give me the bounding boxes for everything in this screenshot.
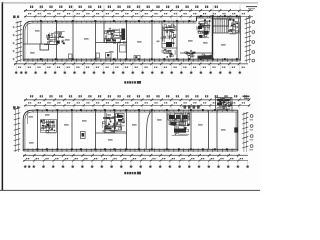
plan1 right grid bubbles [252, 21, 255, 62]
plan2 office furniture cluster left (x40-57) [40, 119, 56, 133]
plan1 dark mass at bottom wall right [198, 56, 213, 59]
plan1 columns on bottom wall [40, 58, 238, 60]
plan2 small dark figure in room x80 [81, 132, 86, 139]
plan1 bottom exterior wall with window mullions [23, 58, 240, 61]
plan1 washroom lower shelf line [44, 41, 60, 45]
plan1 top exterior wall left section [33, 21, 197, 23]
plan1 top wall window mullion ticks [28, 16, 237, 23]
plan2 corridor line mid [96, 132, 127, 134]
plan1 right upper cluster (x228-239) [229, 18, 240, 34]
plan1 interior partitions partial [41, 17, 213, 60]
plan2 marks above top wall x183-199 [182, 105, 200, 108]
plan1 right exterior wall [239, 16, 241, 61]
plan1 staircase treads right section [213, 19, 228, 33]
plan2 right-mid cluster anchor rows [168, 114, 189, 133]
plan2 top dimension line 2 [24, 104, 250, 106]
plan1 right cluster anchor boxes [198, 26, 209, 38]
plan1 inner wall line left [27, 23, 29, 44]
plan2 partition partial x114 [115, 111, 218, 150]
plan1 toilet lower part to bottom wall (x160-176) [162, 49, 175, 58]
plan2 top dimension figures row 1 [30, 95, 247, 97]
plan1 bottom dimension figures [18, 67, 245, 68]
plan1 left chain top text marks [13, 16, 19, 19]
plan1 mid cluster anchor features [105, 29, 126, 43]
plan1 small marks near bottom wall x134 [134, 56, 140, 59]
plan2 left dimension chain [14, 107, 20, 152]
plan2 bottom exterior wall with window mullions [23, 149, 238, 152]
plan2 left exterior wall [23, 120, 25, 151]
plan2 top exterior wall [33, 110, 238, 112]
plan2 columns on bottom wall [36, 148, 227, 150]
plan2 office cluster outline [41, 120, 57, 133]
plan2 interior partitions full height [38, 111, 209, 150]
plan1 top dimension line 1 [24, 9, 253, 12]
plan2 bottom dimension line 1 [23, 154, 248, 157]
plan2 rounded top-left corner [23, 110, 32, 120]
plan1 room name labels [30, 30, 226, 54]
plan1 washroom cluster left (x46-65) [46, 32, 65, 45]
plan1 top dimension line 2 [24, 15, 253, 17]
sheet top border line [2, 2, 258, 4]
plan1 bottom dimension line [14, 63, 248, 66]
plan2 top dimension figures row 2 [28, 102, 245, 103]
plan1 top dimension figures row 1 [30, 6, 218, 8]
plan1 cluster near bottom wall right2 (x197-213) [198, 54, 213, 59]
plan1 toilet cluster mid-left (x104-126) [105, 28, 126, 44]
plan1 cluster near bottom wall right (x183-196) [185, 50, 196, 58]
plan2 protrusion outline box [216, 98, 233, 111]
plan1 small room box left [40, 44, 49, 50]
plan1 corridor wall lines [23, 30, 212, 53]
plan2 staircase treads in cluster [181, 113, 190, 127]
plan2 columns on top wall [36, 109, 227, 111]
plan2 curved corridor wall [146, 111, 152, 150]
plan2 protruding cluster top right (x215-232) [216, 98, 232, 110]
plan2 room name labels [29, 114, 226, 144]
plan1 grid line stubs top [16, 5, 249, 21]
plan2 top band right-end marks [243, 96, 250, 99]
plan1 north scale mark top right [246, 7, 257, 9]
sheet left border bar [2, 2, 3, 191]
plan2 toilet cluster mid (x102-126) [102, 113, 125, 133]
plan2 left chain top text marks [13, 106, 19, 109]
plan1 interior partitions full height [57, 22, 178, 60]
sheet bottom border line [0, 189, 260, 191]
plan1 rounded top-left corner [23, 21, 32, 31]
plan2 stair toilet cluster right-mid (x167-191) [168, 112, 189, 135]
plan1 stair and toilet cluster mid-right (x160-177) [160, 24, 176, 47]
plan2 top dimension line 1 [24, 99, 250, 102]
plan2 bottom grid bubble row [24, 161, 249, 168]
plan1 right dimension chain [245, 17, 251, 63]
plan1 caption: first floor plan title [124, 81, 141, 84]
plan1 small furniture boxes near bottom wall [69, 45, 127, 59]
plan2 right dimension chain [242, 112, 248, 152]
plan2 inner wall line left [27, 112, 29, 124]
plan1 top exterior wall right raised section [197, 16, 241, 21]
plan1 columns on top wall [40, 15, 238, 22]
plan1 right entrance hall cluster (x197-212) [197, 19, 211, 38]
plan1 bottom grid bubble row [15, 64, 241, 74]
plan2 grid stubs above top wall [26, 106, 240, 110]
plan2 right grid bubbles [250, 115, 254, 151]
plan2 bottom dimension figures [26, 158, 243, 159]
plan2 top wall window mullion ticks [28, 110, 232, 113]
plan2 right exterior wall [236, 110, 238, 151]
plan1 left dimension chain [13, 21, 22, 62]
plan1 top dimension figures row 2 [28, 13, 245, 14]
plan1 toilet block inner wall x162 [157, 22, 178, 49]
plan2 caption: second floor plan title [124, 172, 141, 175]
plan2 dark box on right wall [234, 127, 238, 132]
plan2 bottom dimension line 2 [23, 160, 248, 162]
plan1 left exterior wall [23, 31, 25, 61]
plan2 toilet cluster anchor features [103, 111, 124, 134]
